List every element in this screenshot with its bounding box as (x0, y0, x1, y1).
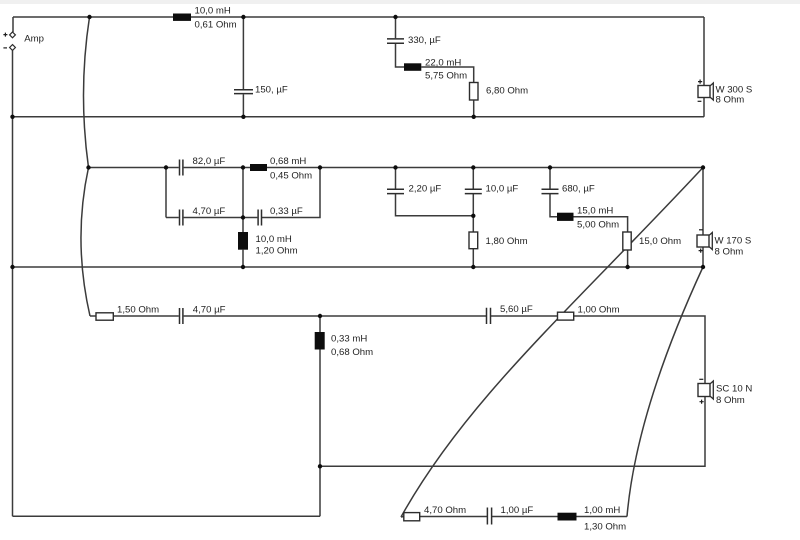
svg-text:15,0 Ohm: 15,0 Ohm (639, 236, 681, 247)
wire C6 branch upper (395, 168, 397, 190)
svg-text:8 Ohm: 8 Ohm (715, 246, 744, 257)
capacitor C10 5.6uF plates (487, 308, 491, 324)
wire notch branch a (401, 516, 404, 519)
wire L4 lower lead (242, 250, 244, 267)
wire R3 lower lead (627, 250, 629, 267)
svg-text:680, µF: 680, µF (562, 184, 595, 195)
wire C8 to L5 (550, 194, 557, 217)
svg-text:1,30 Ohm: 1,30 Ohm (584, 522, 626, 533)
wire tweeter rail e (574, 316, 705, 384)
svg-text:5,60 µF: 5,60 µF (500, 304, 533, 315)
svg-text:22,0 mH: 22,0 mH (425, 57, 461, 68)
wire long arc mid top-right to notch branch (401, 168, 703, 518)
node rail1 x89 (87, 15, 91, 19)
wire bottom return (13, 515, 321, 517)
svg-text:2,20 µF: 2,20 µF (409, 184, 442, 195)
resistor R1 6.8 Ohm body (470, 83, 479, 101)
svg-text:4,70 Ohm: 4,70 Ohm (424, 505, 466, 516)
node midtop x243 (241, 165, 245, 169)
node midtop x88 (86, 165, 90, 169)
speaker W170S minus mark (699, 229, 703, 231)
wire L5 to R3 (574, 217, 628, 232)
window top bar (0, 0, 800, 4)
wire tweeter rail b (113, 315, 179, 317)
capacitor C2 330uF plates (387, 39, 404, 43)
node tweeter return x320 (318, 464, 322, 468)
node midreturn x243 (241, 265, 245, 269)
svg-text:10,0 µF: 10,0 µF (486, 184, 519, 195)
wire L2 to R1 (421, 67, 473, 83)
speaker SC10N plus mark (700, 400, 704, 404)
wire tweeter rail c (184, 315, 487, 317)
svg-text:1,80 Ohm: 1,80 Ohm (486, 236, 528, 247)
wire L4 upper lead (242, 168, 244, 233)
wire woofer speaker top lead (703, 17, 705, 86)
svg-text:1,00 Ohm: 1,00 Ohm (578, 305, 620, 316)
amp plus terminal (10, 32, 16, 38)
node midtop x703 (701, 165, 705, 169)
resistor R3 15 Ohm body (623, 232, 631, 250)
inductor L5 15mH body (557, 213, 574, 221)
wire arc amp to midrange section (83, 17, 89, 168)
speaker W170S plus mark (699, 249, 703, 253)
svg-text:0,68 Ohm: 0,68 Ohm (331, 347, 373, 358)
capacitor C11 1.0uF plates (487, 508, 491, 525)
wire mid lower branch a (166, 217, 179, 219)
wire tweeter rail d (491, 315, 558, 317)
wire amp plus lead (12, 17, 14, 32)
wire C1 branch upper (242, 17, 244, 89)
node rail2 x473 (472, 115, 476, 119)
svg-text:W 170 S: W 170 S (715, 236, 752, 247)
wire left rail (12, 50, 14, 516)
wire arc mid return to notch branch (627, 267, 703, 517)
svg-text:1,00 µF: 1,00 µF (501, 505, 534, 516)
svg-text:1,20 Ohm: 1,20 Ohm (256, 246, 298, 257)
node midtop x395 (393, 165, 397, 169)
wire midrange speaker top lead (702, 168, 704, 236)
svg-text:10,0 mH: 10,0 mH (195, 6, 231, 17)
capacitor C7 10uF plates (465, 189, 482, 193)
inductor L7 1.0mH body (558, 513, 577, 521)
inductor L1 10mH body (173, 14, 191, 21)
speaker W300S cone (710, 83, 713, 100)
wire woofer return rail (13, 116, 705, 118)
wire C1 branch lower (242, 94, 244, 117)
node rail2 x243 (241, 115, 245, 119)
capacitor C1 150uF plates (234, 90, 253, 94)
svg-text:0,33 mH: 0,33 mH (331, 333, 367, 344)
wire notch branch c (492, 516, 558, 518)
svg-text:8 Ohm: 8 Ohm (716, 95, 745, 106)
wire midrange top rail right (184, 167, 703, 169)
svg-text:82,0 µF: 82,0 µF (193, 156, 226, 167)
wire top rail (13, 16, 704, 18)
capacitor C8 680uF plates (542, 189, 559, 193)
inductor L6 0.33mH body (315, 332, 325, 350)
wire riser bottom-left to tweeter return (319, 466, 321, 516)
svg-text:0,33 µF: 0,33 µF (270, 206, 303, 217)
wire C7 to R2 (472, 194, 474, 232)
svg-text:330, µF: 330, µF (408, 35, 441, 46)
wire mid lower branch b (184, 217, 258, 219)
wire midrange speaker bottom lead (702, 247, 704, 267)
speaker SC10N box (698, 384, 710, 397)
wire tweeter rail a (90, 315, 96, 317)
speaker W300S plus mark (698, 80, 702, 84)
speaker W170S cone (709, 233, 712, 250)
svg-text:1,00 mH: 1,00 mH (584, 505, 620, 516)
capacitor C5 0.33uF plates (258, 210, 261, 226)
speaker W170S box (697, 235, 709, 247)
node rail1 x395 (393, 15, 397, 19)
svg-text:4,70 µF: 4,70 µF (193, 305, 226, 316)
capacitor C4 4.7uF plates (180, 210, 183, 226)
wire tweeter speaker bottom lead (320, 397, 705, 467)
wire C7 branch upper (472, 168, 474, 190)
capacitor C9 4.7uF tweeter plates (180, 308, 183, 324)
node midlink x473 (471, 214, 475, 218)
node midreturn x703 (701, 265, 705, 269)
svg-text:10,0 mH: 10,0 mH (256, 234, 292, 245)
speaker W300S minus mark (698, 100, 702, 102)
wire C8 branch upper (549, 168, 551, 190)
node rail1 x243 (241, 15, 245, 19)
node midreturn x12 (10, 265, 14, 269)
svg-text:15,0 mH: 15,0 mH (577, 206, 613, 217)
wire mid branch riser x166 (165, 168, 167, 218)
wire midrange top rail left (89, 167, 179, 169)
inductor L4 10mH body (238, 232, 248, 250)
svg-text:5,75 Ohm: 5,75 Ohm (425, 71, 467, 82)
capacitor C3 82uF plates (180, 160, 183, 176)
wire notch branch d (577, 516, 628, 518)
node tweeter rail x320 (318, 314, 322, 318)
svg-text:SC 10 N: SC 10 N (716, 384, 752, 395)
svg-text:W 300 S: W 300 S (716, 84, 753, 95)
resistor R4 1.5 Ohm body (96, 313, 113, 320)
svg-text:Amp: Amp (24, 34, 44, 45)
svg-text:6,80 Ohm: 6,80 Ohm (486, 86, 528, 97)
speaker SC10N cone (710, 381, 713, 399)
wire L6 upper lead (319, 316, 321, 332)
wire R2 lower lead (472, 249, 474, 267)
resistor R2 1.8 Ohm body (469, 232, 478, 249)
svg-text:0,61 Ohm: 0,61 Ohm (195, 19, 237, 30)
inductor L2 22mH body (404, 63, 421, 71)
speaker SC10N minus mark (699, 378, 703, 380)
wire arc midrange to tweeter section (81, 168, 90, 317)
wire notch branch b (420, 516, 487, 518)
amp minus sign (3, 47, 7, 49)
wire C2 branch upper (395, 17, 397, 38)
node rail2 x12 (10, 115, 14, 119)
node midreturn x627 (625, 265, 629, 269)
resistor R5 1.0 Ohm body (558, 312, 574, 320)
node midtop x473 (471, 165, 475, 169)
wire C2 to L2 (396, 44, 405, 67)
wire mid lower branch c (262, 168, 320, 218)
svg-text:1,50 Ohm: 1,50 Ohm (117, 305, 159, 316)
svg-text:8 Ohm: 8 Ohm (716, 395, 745, 406)
resistor R6 4.7 Ohm body (404, 513, 420, 521)
svg-text:5,00 Ohm: 5,00 Ohm (577, 220, 619, 231)
node midreturn x473 (471, 265, 475, 269)
svg-text:4,70 µF: 4,70 µF (193, 206, 226, 217)
svg-text:0,68 mH: 0,68 mH (270, 156, 306, 167)
svg-text:150, µF: 150, µF (255, 85, 288, 96)
amp minus terminal (10, 45, 16, 51)
node midtop x550 (548, 165, 552, 169)
wire L6 lower lead (319, 350, 321, 467)
node midtop x166 (164, 165, 168, 169)
capacitor C6 2.2uF plates (387, 189, 404, 193)
amp plus sign (3, 33, 7, 37)
node midlower x243 (241, 215, 245, 219)
speaker W300S box (698, 86, 710, 98)
wire R1 lower lead (473, 100, 475, 117)
inductor L3 0.68mH body (250, 164, 267, 171)
wire C6 branch to link (396, 194, 474, 216)
svg-text:0,45 Ohm: 0,45 Ohm (270, 171, 312, 182)
wire midrange return rail (13, 266, 704, 268)
wire woofer speaker bottom lead (703, 98, 705, 117)
node midtop x320 (318, 165, 322, 169)
